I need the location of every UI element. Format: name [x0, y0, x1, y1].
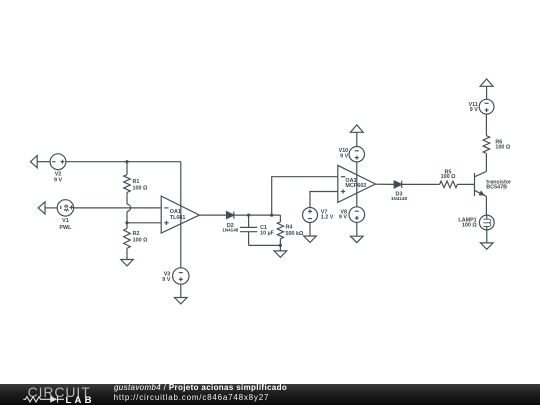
svg-text:R1: R1: [133, 179, 140, 185]
svg-text:100 Ω: 100 Ω: [495, 145, 510, 151]
svg-text:1N4148: 1N4148: [222, 228, 239, 233]
svg-text:9 V: 9 V: [340, 153, 348, 159]
svg-text:100 Ω: 100 Ω: [133, 185, 148, 191]
svg-text:MCP602: MCP602: [345, 183, 366, 189]
svg-text:R2: R2: [133, 231, 140, 237]
svg-text:9 V: 9 V: [470, 107, 478, 113]
svg-text:100 Ω: 100 Ω: [133, 238, 148, 244]
svg-text:500 kΩ: 500 kΩ: [286, 231, 304, 237]
svg-text:LAB: LAB: [66, 395, 95, 405]
svg-text:1.2 V: 1.2 V: [321, 215, 334, 221]
svg-text:1N4148: 1N4148: [391, 196, 408, 201]
svg-text:9 V: 9 V: [339, 215, 347, 221]
svg-text:PWL: PWL: [59, 225, 72, 231]
svg-text:10 µF: 10 µF: [260, 231, 275, 237]
svg-text:100 Ω: 100 Ω: [462, 223, 477, 229]
svg-text:V1: V1: [62, 218, 69, 224]
svg-text:BC547B: BC547B: [486, 185, 507, 191]
svg-text:R4: R4: [286, 225, 293, 231]
svg-text:9 V: 9 V: [54, 178, 62, 184]
svg-text:100 Ω: 100 Ω: [441, 174, 456, 180]
svg-text:TL081: TL081: [170, 215, 186, 221]
svg-text:9 V: 9 V: [162, 277, 170, 283]
